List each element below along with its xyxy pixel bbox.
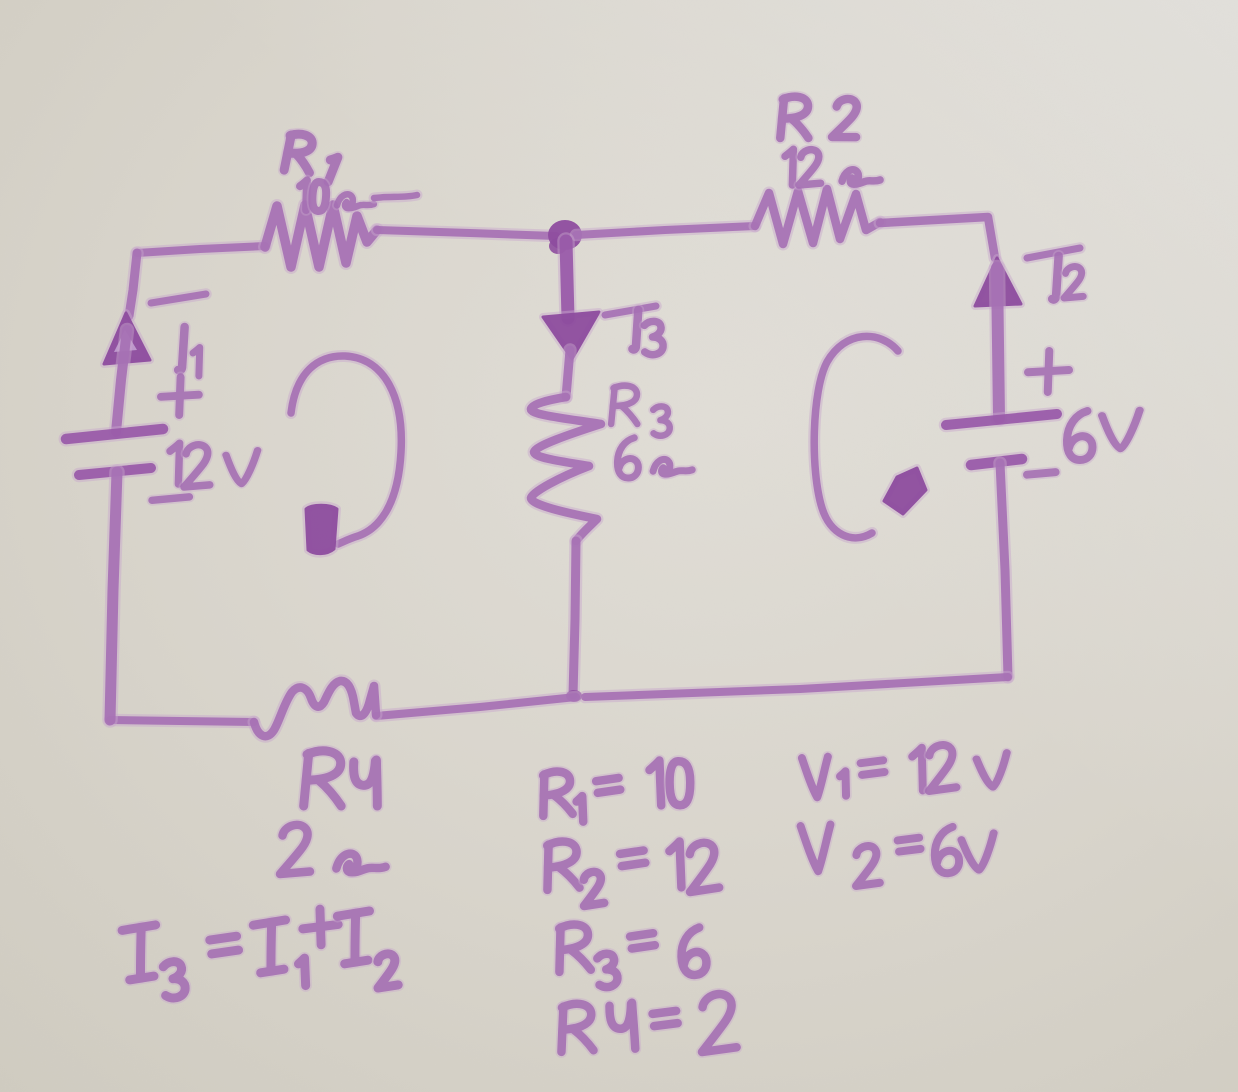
- current arrow I1: [104, 313, 150, 364]
- label V1 value 12V: [152, 497, 189, 500]
- label R1 designator: [284, 133, 313, 173]
- node junction (top of R3): [548, 220, 582, 250]
- label R4 value 2ohm: [280, 825, 310, 874]
- label R2 designator: [780, 97, 808, 138]
- label R2 value 12ohm: [785, 149, 793, 185]
- wire right segment down: [1000, 463, 1008, 677]
- label I2: [1027, 248, 1080, 258]
- label V2 value 6V: [1027, 472, 1056, 475]
- label R3 designator: [611, 386, 637, 424]
- label R3 value 6ohm: [617, 438, 638, 478]
- value list V1 = 12V: [802, 757, 830, 798]
- current arrow I3: [543, 312, 599, 359]
- wire bottom-right segment: [585, 677, 1008, 697]
- value list R4 = 2: [559, 1003, 594, 1052]
- wire left segment down: [129, 253, 137, 316]
- value list V2 = 6V: [801, 824, 833, 872]
- resistor R1: [265, 205, 377, 267]
- wire top-middle segment: [377, 230, 556, 236]
- label plus terminal V1: [161, 377, 199, 415]
- resistor R2: [755, 189, 880, 244]
- wire bottom-left segment: [376, 697, 576, 716]
- mesh current loop arrow 2 (counter-clockwise, right mesh): [814, 336, 898, 537]
- label R1 value 10ohm: [300, 180, 307, 210]
- wire middle from node: [566, 241, 568, 318]
- battery V2 negative plate: [971, 459, 1022, 465]
- value list R1 = 10: [540, 771, 572, 816]
- wire middle above R3: [566, 350, 570, 397]
- label R4 designator: [304, 751, 342, 806]
- value list R3 = 6: [556, 924, 591, 972]
- wire middle below R3: [573, 541, 576, 695]
- label I1: [151, 294, 206, 303]
- resistor R4: [254, 681, 376, 736]
- battery V1 positive plate: [66, 429, 163, 439]
- value list R2 = 12: [544, 841, 579, 890]
- mesh current loop arrow 1 (clockwise, left mesh): [291, 356, 401, 544]
- equation I3 = I1 + I2: [122, 925, 159, 980]
- wire top-left segment: [137, 246, 265, 253]
- label I3: [605, 306, 656, 315]
- battery V2 positive plate: [946, 414, 1057, 425]
- current arrow I2: [975, 258, 1021, 306]
- wire top-right corner down: [880, 217, 995, 258]
- label plus terminal V2: [1028, 351, 1069, 392]
- resistor R3: [531, 397, 601, 541]
- wire left bottom segment: [110, 472, 117, 720]
- battery V1 negative plate: [79, 468, 151, 475]
- wire top-right segment: [576, 226, 755, 235]
